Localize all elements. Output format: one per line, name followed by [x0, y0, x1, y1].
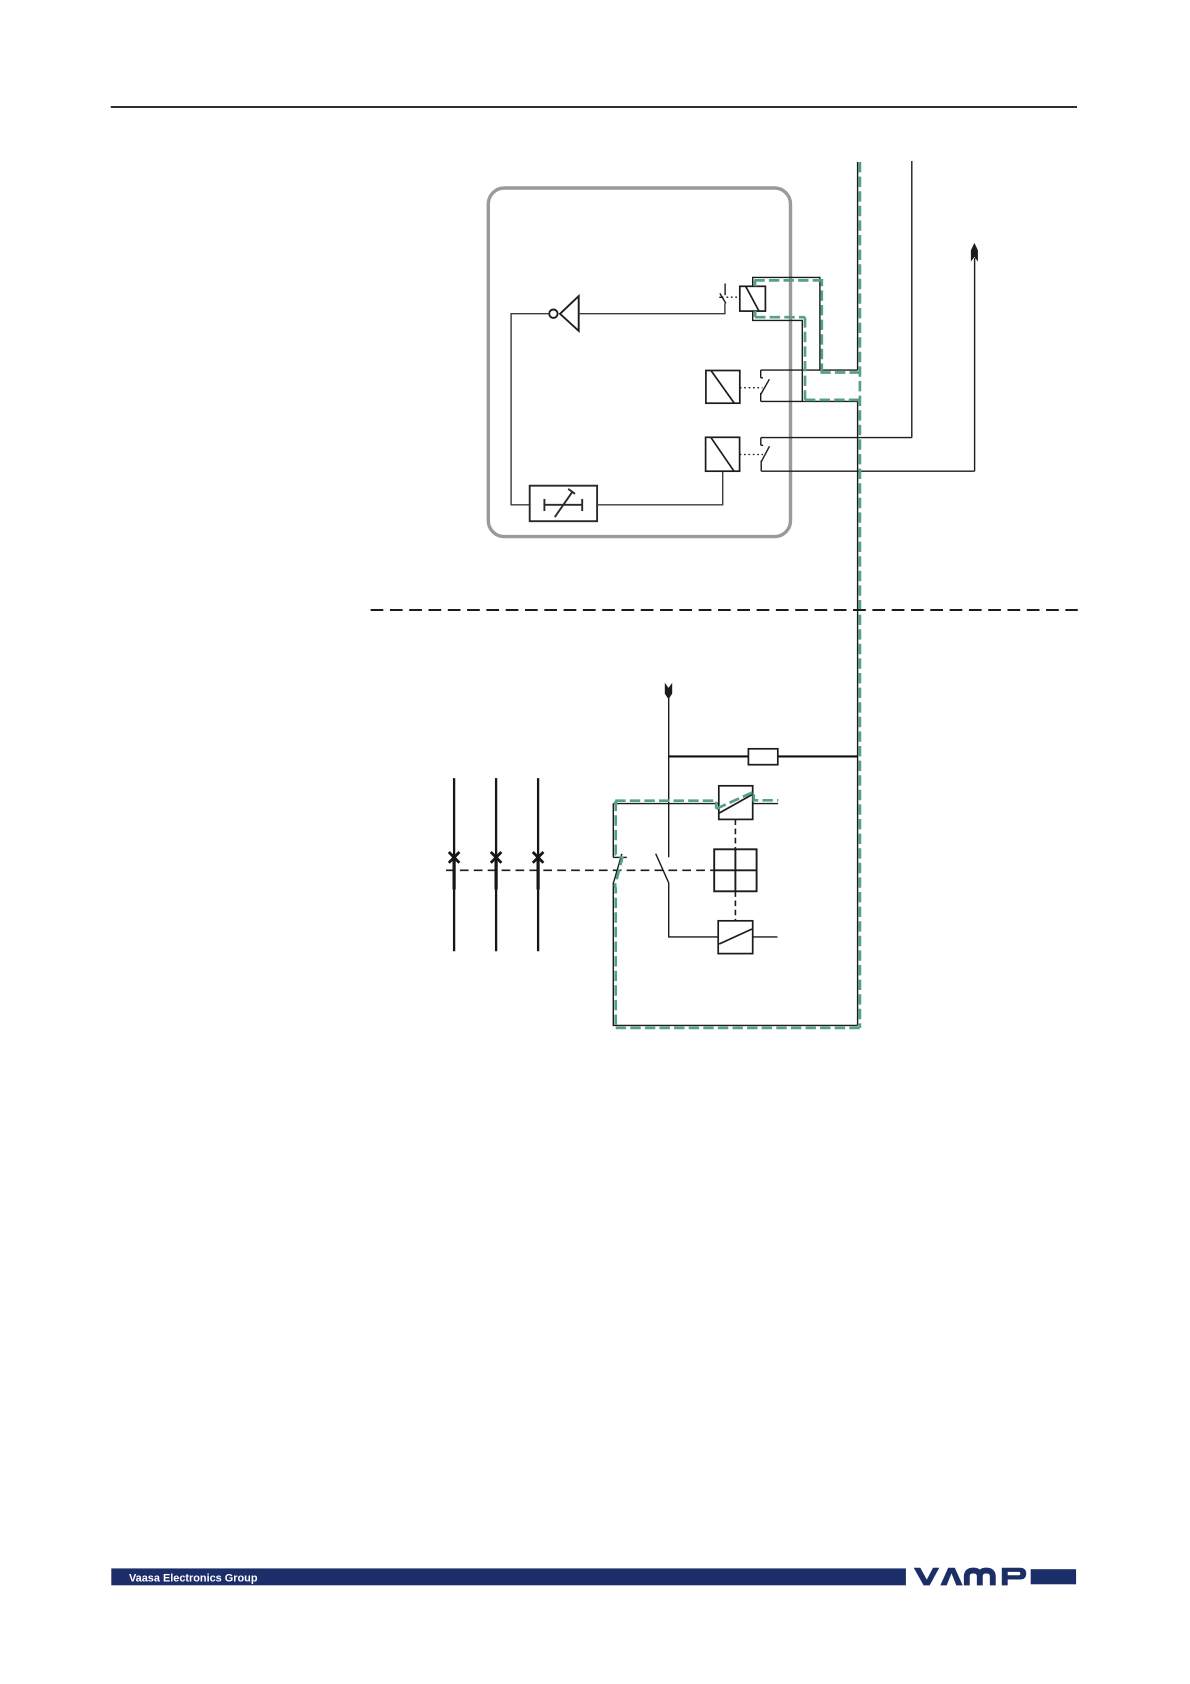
contact 3 (output contact) [761, 438, 770, 472]
coil A1 box [740, 286, 766, 311]
coil A2 box [706, 371, 740, 404]
VAMP logo letter A [940, 1568, 962, 1586]
wire switch box to coil A3 bottom [597, 471, 723, 505]
arrow terminal down (station supply) [665, 683, 672, 700]
VAMP logo letter V [914, 1568, 940, 1586]
wire inverter output to left rail [511, 314, 549, 505]
right disconnector blade [656, 854, 669, 883]
breaker position switch box S1 [530, 486, 597, 522]
terminal line V2 [911, 161, 913, 438]
trip loop left and bottom wire [613, 882, 857, 1025]
wire coil A1 top loop [753, 277, 820, 370]
aux contact left wire [669, 883, 719, 937]
wire contact 3 bottom to arrow terminal [761, 470, 974, 472]
wire contact 2 bottom rail [761, 400, 858, 402]
CT cross L3 [533, 852, 544, 863]
wire contact 3 top to terminal line [761, 437, 912, 439]
breaker aux contact box [718, 921, 753, 954]
terminal line V1 lower run [857, 401, 859, 1025]
CT secondary thick segment L3 [536, 858, 539, 890]
breaker contact stub right [753, 803, 778, 805]
contact 1 (NC aux contact) [719, 284, 726, 304]
dotted link contact 1 to coil A1 [727, 296, 740, 298]
CT cross L1 [449, 852, 460, 863]
mechanical linkage dashed horizontal [446, 869, 714, 871]
green trip loop overlay lower [615, 792, 860, 1028]
phase line L2 [495, 778, 497, 951]
section divider dashed [371, 609, 1078, 611]
fuse F1 [748, 749, 777, 765]
contact 2 (output contact) [761, 370, 770, 401]
phase line L3 [537, 778, 539, 951]
trip wire to breaker [613, 803, 719, 805]
dotted link coil A3 to contact 3 [740, 454, 763, 456]
dotted link coil A2 to contact 2 [740, 387, 763, 389]
VAMP logo letter M [967, 1571, 993, 1586]
breaker mechanism dashed link vertical lower [734, 891, 736, 921]
green trip path overlay upper [754, 162, 860, 1028]
left trip loop fixed lead [613, 804, 627, 858]
breaker operating mechanism box [714, 849, 756, 891]
header rule [111, 106, 1077, 108]
inverter gate U1 [549, 296, 579, 331]
CT secondary thick segment L1 [453, 858, 456, 890]
VAMP logo letter P [1002, 1568, 1026, 1586]
arrow terminal up [974, 258, 976, 471]
aux contact right stub [753, 936, 778, 938]
supply line down to disconnector [668, 697, 670, 857]
breaker mechanism dashed link vertical upper [734, 819, 736, 849]
svg-text:Vaasa Electronics Group: Vaasa Electronics Group [129, 1573, 258, 1585]
circuit breaker Q0 box [719, 786, 753, 820]
VAMP logo block [1031, 1569, 1076, 1584]
phase line L1 [453, 778, 455, 951]
left disconnector blade [614, 854, 622, 883]
CT cross L2 [491, 852, 502, 863]
terminal line V1 (supply rail) [857, 162, 859, 370]
footer bar [111, 1568, 906, 1585]
CT secondary thick segment L2 [495, 858, 498, 890]
fuse wire [669, 755, 858, 757]
relay enclosure [488, 188, 790, 537]
wire inverter input from contact 1 [579, 303, 725, 313]
wire contact 2 top rail [761, 369, 858, 371]
coil A3 box [706, 437, 740, 471]
wire coil A1 bottom loop [753, 311, 803, 401]
